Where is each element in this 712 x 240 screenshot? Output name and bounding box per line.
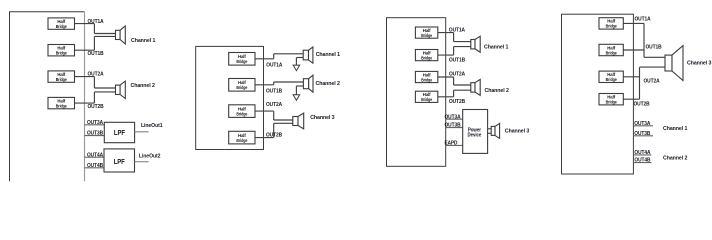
wire speaker-top stub Channel 3 (panel 3) [488,128,492,130]
pin label OUT1A (panel 1) [88,19,105,25]
label LineOut2 (panel 1) [139,154,161,160]
label Channel 1 (panel 2) [316,52,341,58]
IC U1 (4-channel class-D amplifier, panel 1) [10,12,85,182]
label Channel 3 (panel 4) [687,61,712,67]
half bridge HB2 (panel 1) [48,45,75,56]
svg-text:OUT1B: OUT1B [646,44,662,50]
half bridge HB1 (panel 1) [48,18,75,29]
half bridge HB8 (panel 2) [229,131,255,144]
pin label OUT1B (panel 2) [266,88,282,94]
wire OUT1B from HB14 (panel 4) [623,49,644,51]
pin label OUT2B (panel 1) [88,104,104,110]
svg-text:OUT1A: OUT1A [266,62,283,68]
svg-text:Bridge: Bridge [56,24,67,29]
speaker Channel 1 (panel 1) [116,26,126,44]
pin label OUT3A (panel 4) [634,121,651,127]
wire OUT2A from HB11 (panel 3) [438,76,454,78]
half bridge HB10 (panel 3) [415,50,437,61]
svg-text:OUT4A: OUT4A [87,152,104,158]
svg-text:OUT2B: OUT2B [88,104,104,110]
ground for Channel 1 speaker (panel 2) [293,58,303,71]
wire speaker-top stub Channel 1 (panel 1) [94,33,115,35]
wire OUT3B to power device (panel 3) [446,127,463,129]
pin label OUT1B (panel 4) [646,44,662,50]
speaker Channel 2 (panel 3) [471,79,480,95]
pin label OUT1A (panel 2) [266,62,283,68]
svg-text:Channel 3: Channel 3 [687,61,712,67]
label Channel 2 (panel 2) [316,81,340,87]
pin label OUT4A (panel 1) [87,152,104,158]
pin label OUT2A (panel 2) [266,102,283,108]
svg-text:LineOut2: LineOut2 [139,154,161,160]
svg-text:Channel 2: Channel 2 [485,88,509,94]
wire junction vertical OUT1B (panel 3) [453,47,455,56]
svg-text:OUT4B: OUT4B [87,163,103,169]
pin label OUT2A (panel 4) [644,78,661,84]
half bridge HB16 (panel 4) [599,94,623,105]
svg-text:Bridge: Bridge [421,97,432,102]
speaker Channel 2 (panel 1) [116,81,126,98]
half bridge HB5 (panel 2) [229,53,255,66]
label Channel 3 (panel 2) [310,115,335,121]
svg-text:Bridge: Bridge [421,33,432,38]
pin label OUT1A (panel 4) [635,16,652,22]
label Channel 1 (panel 1) [131,38,156,44]
pin label OUT1B (panel 1) [88,51,104,57]
svg-text:LPF: LPF [114,130,126,137]
svg-text:OUT1A: OUT1A [449,27,466,33]
label Channel 2 (panel 4) [663,156,687,162]
wire speaker-bottom stub Channel 2 (panel 3) [454,89,471,91]
wire OUT1A from HB5 (panel 2) [255,58,274,60]
wire junction vertical OUT1A (panel 3) [453,33,455,42]
svg-text:OUT2A: OUT2A [266,102,283,108]
pin label OUT1A (panel 3) [449,27,466,33]
svg-text:OUT2A: OUT2A [88,72,105,78]
label Channel 3 (panel 3) [505,129,530,135]
svg-text:Bridge: Bridge [421,77,432,82]
wire OUT1B from HB10 (panel 3) [438,54,454,56]
wire speaker-bottom stub Channel 1 (panel 3) [454,46,471,48]
wire OUT4B stub (panel 4) [633,162,651,164]
speaker Channel 3 (panel 3) [491,123,499,138]
label Channel 2 (panel 1) [131,83,155,89]
wire jog up OUT1A (panel 2) [274,54,304,59]
half bridge HB15 (panel 4) [599,71,623,82]
wire OUT2B from HB12 (panel 3) [438,96,454,98]
half bridge HB9 (panel 3) [415,27,437,38]
pin label OUT2B (panel 3) [449,99,465,105]
wire junction vertical OUT1A (panel 1) [93,24,95,34]
speaker Channel 2 (panel 2) [303,75,313,92]
svg-text:OUT3B: OUT3B [87,131,103,137]
svg-text:Bridge: Bridge [56,77,67,82]
svg-text:Bridge: Bridge [606,77,617,82]
wire jog up OUT1B (panel 2) [274,82,304,85]
pin label OUT4B (panel 1) [87,163,103,169]
ground for Channel 2 speaker (panel 2) [293,86,303,100]
half bridge HB11 (panel 3) [415,71,437,82]
svg-text:Channel 1: Channel 1 [484,45,509,51]
wire OUT3B into LPF (panel 1) [85,135,105,137]
pin label OUT3A (panel 3) [445,114,462,120]
half bridge HB6 (panel 2) [229,79,255,92]
wire junction vertical OUT2B (panel 1) [93,92,95,103]
wire OUT4B into LPF (panel 1) [85,167,105,169]
wire speaker-top stub Channel 1 (panel 3) [454,41,471,43]
pin label OUT1B (panel 3) [449,57,465,63]
svg-text:OUT2B: OUT2B [449,99,465,105]
svg-text:OUT1A: OUT1A [635,16,652,22]
wire OUT3B stub (panel 4) [633,135,653,137]
wire speaker-bottom stub Channel 3 (panel 3) [488,132,492,134]
half bridge HB4 (panel 1) [48,97,75,108]
wire jog up OUT2B (panel 2) [274,123,293,137]
svg-text:LPF: LPF [114,159,126,166]
wire OUT2B from HB8 (panel 2) [255,137,274,139]
svg-text:Bridge: Bridge [56,51,67,56]
wire speaker-bottom stub Channel 3 (panel 4) [640,66,666,68]
wire LineOut1 stub (panel 1) [135,131,149,133]
wire OUT4A into LPF (panel 1) [85,156,105,158]
low-pass filter LPF1 (panel 1) [104,122,134,142]
label Channel 1 (panel 3) [484,45,509,51]
svg-text:Bridge: Bridge [606,24,617,29]
half bridge HB14 (panel 4) [599,44,623,55]
svg-text:Channel 2: Channel 2 [131,83,155,89]
speaker Channel 1 (panel 3) [471,36,480,52]
svg-text:OUT2B: OUT2B [634,102,650,108]
svg-text:Bridge: Bridge [236,85,247,90]
half bridge HB7 (panel 2) [229,105,255,118]
wire junction vertical OUT2B (panel 3) [453,90,455,97]
wire EAPD to power device (panel 3) [446,144,463,146]
pin label OUT3B (panel 1) [87,131,103,137]
svg-text:Channel 2: Channel 2 [316,81,340,87]
svg-text:Channel 1: Channel 1 [316,52,341,58]
pin label OUT2B (panel 2) [266,133,282,139]
svg-text:Channel 3: Channel 3 [310,115,335,121]
pin label OUT2A (panel 3) [449,72,466,78]
IC U3 (4-channel class-D amplifier, panel 3) [387,18,446,167]
wire speaker-top stub Channel 2 (panel 3) [454,84,471,86]
speaker Channel 3 (panel 2) [293,113,304,129]
wire OUT1A from HB13 (panel 4) [623,22,644,24]
svg-text:Channel 2: Channel 2 [663,156,687,162]
svg-text:Device: Device [468,132,482,138]
wire speaker-bottom stub Channel 2 (panel 1) [94,91,115,93]
label Channel 2 (panel 3) [485,88,509,94]
svg-text:OUT2A: OUT2A [449,72,466,78]
wire OUT1A from HB9 (panel 3) [438,32,454,34]
wire OUT4A stub (panel 4) [633,154,651,156]
wire junction vertical OUT2A (panel 3) [453,77,455,85]
speaker Channel 1 (panel 2) [303,47,313,63]
pin label OUT4B (panel 4) [634,158,650,164]
wire OUT2A from HB3 to junction (panel 1) [75,76,95,78]
svg-text:Channel 1: Channel 1 [131,38,156,44]
svg-text:Channel 3: Channel 3 [505,129,530,135]
wire OUT1B from HB2 to junction (panel 1) [75,49,95,51]
pin label OUT3B (panel 4) [634,131,650,137]
wire OUT3A to power device (panel 3) [446,118,463,120]
svg-text:OUT1B: OUT1B [449,57,465,63]
wire OUT2A from HB15 (panel 4) [623,76,639,78]
pin label OUT3A (panel 1) [87,120,104,126]
wire OUT2B from HB4 to junction (panel 1) [75,102,95,104]
svg-text:OUT1A: OUT1A [88,19,105,25]
half bridge HB13 (panel 4) [599,18,623,29]
wire speaker-top stub Channel 2 (panel 1) [94,87,115,89]
svg-text:OUT1B: OUT1B [88,51,104,57]
label LineOut1 (panel 1) [141,123,163,129]
wire OUT3A into LPF (panel 1) [85,124,105,126]
svg-text:OUT1B: OUT1B [266,88,282,94]
low-pass filter LPF2 (panel 1) [104,149,135,172]
wire junction vertical OUT2A (panel 1) [93,77,95,88]
wire junction vertical OUT1B (panel 1) [93,36,95,50]
svg-text:OUT3A: OUT3A [87,120,104,126]
wire OUT3A stub (panel 4) [633,125,653,127]
svg-text:Channel 1: Channel 1 [663,126,688,132]
svg-text:Bridge: Bridge [606,50,617,55]
pin label OUT3B (panel 3) [445,123,461,129]
wire LineOut2 stub (panel 1) [135,161,149,163]
pin label OUT4A (panel 4) [634,150,651,156]
svg-text:OUT2A: OUT2A [644,78,661,84]
svg-text:LineOut1: LineOut1 [141,123,163,129]
svg-text:Bridge: Bridge [421,55,432,60]
wire jog down OUT2A (panel 2) [274,111,293,120]
svg-text:Bridge: Bridge [236,111,247,116]
speaker Channel 3 (panel 4) [665,46,683,81]
label Channel 1 (panel 4) [663,126,688,132]
wire OUT2A from HB7 (panel 2) [255,110,274,112]
wire speaker-top stub Channel 3 (panel 4) [644,56,665,58]
pin label OUT2A (panel 1) [88,72,105,78]
pin label OUT2B (panel 4) [634,102,650,108]
IC U5 (4-channel class-D amplifier, panel 4) [562,14,634,174]
wire OUT2B from HB16 (panel 4) [623,98,639,100]
wire speaker-bottom stub Channel 1 (panel 1) [94,35,115,37]
IC U2 (4-channel class-D amplifier, panel 2) [196,46,264,149]
svg-text:Bridge: Bridge [56,103,67,108]
pin label EAPD (panel 3) [445,141,458,147]
svg-text:Bridge: Bridge [606,100,617,105]
wire OUT1A from HB1 to junction (panel 1) [75,23,95,25]
svg-text:Bridge: Bridge [236,59,247,64]
svg-text:OUT2B: OUT2B [266,133,282,139]
half bridge HB12 (panel 3) [415,91,437,102]
svg-text:Bridge: Bridge [236,138,247,143]
wire merge vertical OUT2A+OUT2B (panel 4) [639,67,641,99]
wire merge vertical OUT1A+OUT1B (panel 4) [643,23,645,57]
power device U4 (panel 3) [463,110,488,154]
half bridge HB3 (panel 1) [48,71,75,82]
wire OUT1B from HB6 (panel 2) [255,84,274,86]
